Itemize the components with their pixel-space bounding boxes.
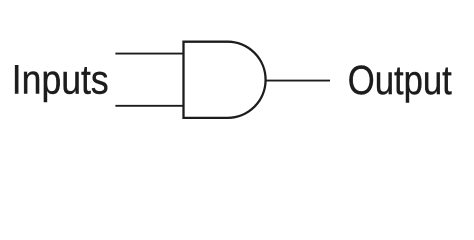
wire output	[266, 80, 330, 82]
svg-text:Output: Output	[348, 57, 453, 102]
wire input top	[115, 53, 183, 55]
AND gate U1	[184, 42, 266, 118]
svg-text:Inputs: Inputs	[12, 59, 109, 104]
wire input bottom	[115, 105, 183, 107]
